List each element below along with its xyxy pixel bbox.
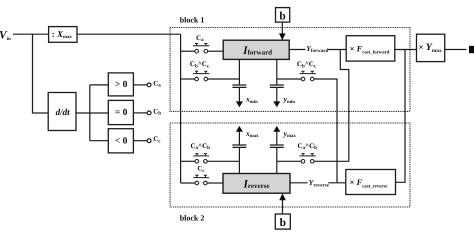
block lt0: [108, 129, 133, 153]
wire switch CaCb left to xmax node: [207, 160, 239, 162]
block xYmax: [417, 34, 445, 61]
wire Ymax to output: [445, 49, 467, 51]
block xFcast_forward: [346, 36, 395, 61]
wire ymax node to switch CaCb right: [277, 160, 301, 162]
wire switch Ca to Iforward: [208, 50, 224, 52]
wire bus to switch CbCc left: [181, 78, 195, 80]
arrow xmax: [236, 126, 259, 145]
wire bus to switch Ca: [181, 50, 195, 52]
source b top: [276, 8, 290, 23]
svg-text:> 0: > 0: [115, 80, 128, 90]
wire junction Vin bus to d/dt: [33, 34, 49, 113]
wire ymin node to switch CbCc right: [277, 78, 301, 80]
node Ca terminal: [147, 79, 161, 88]
svg-text:b: b: [279, 11, 285, 23]
wire Vin to :Xmax: [13, 33, 49, 35]
block1 dashed frame: [170, 28, 410, 112]
block gt0: [108, 73, 133, 96]
wire switch CbCc left to xmin node: [208, 78, 240, 80]
svg-text:< 0: < 0: [115, 136, 128, 146]
block eq0: [108, 100, 133, 124]
wire switch Cc to Ireverse: [207, 182, 223, 184]
switch CbCc right: [297, 60, 317, 81]
block2 label: [180, 214, 205, 223]
wire d/dt output to eq0: [76, 112, 108, 114]
node output port: [469, 46, 474, 53]
block Ireverse: [223, 174, 290, 194]
wire Iforward to xmin capacitor: [238, 59, 240, 85]
block2 dashed frame: [170, 123, 410, 207]
switch CaCb left: [190, 142, 210, 163]
block :Xmax: [49, 27, 77, 43]
wire Yreverse label line: [290, 182, 308, 184]
block Iforward: [223, 40, 289, 59]
source b bottom: [275, 214, 290, 229]
svg-text:= 0: = 0: [115, 108, 128, 118]
svg-text:Cb^Cc: Cb^Cc: [297, 60, 317, 69]
wire switch CbCc right down to Yreverse: [314, 79, 337, 183]
switch Ca: [193, 34, 209, 53]
capacitor ymax: [270, 145, 284, 147]
wire ymax capacitor to Ireverse: [276, 147, 278, 173]
switch Cc block2: [193, 165, 209, 185]
capacitor xmax: [232, 145, 246, 147]
node Cc terminal: [147, 135, 161, 144]
wire gt0 to Ca terminal: [133, 84, 147, 86]
arrow ymin: [273, 87, 295, 107]
wire bus to switch CaCb left: [181, 160, 196, 162]
wire lt0 to Cc terminal: [133, 140, 147, 142]
svg-text:d/dt: d/dt: [56, 107, 71, 117]
wire b bottom arrow into Ireverse: [279, 193, 286, 214]
wire merge vertical from Fcast_reverse: [396, 50, 406, 183]
wire Iforward to ymin capacitor: [276, 59, 278, 85]
capacitor ymin: [270, 85, 284, 87]
block d/dt: [48, 93, 76, 131]
node Vin label: [0, 30, 11, 42]
wire Xmax to block1 bus: [77, 33, 181, 35]
wire Yforward tap down to block2 switch: [314, 50, 349, 162]
wire Yforward label line: [289, 49, 305, 51]
capacitor xmin: [232, 85, 246, 87]
wire b top arrow into Iforward: [279, 22, 286, 40]
switch CbCc left: [190, 60, 210, 81]
wire Fcast_forward to Ymax: [395, 49, 417, 51]
wire xmax capacitor to Ireverse: [238, 147, 240, 173]
wire to gt0: [90, 84, 109, 86]
wire main bus vertical: [180, 34, 182, 183]
wire to lt0: [90, 140, 109, 142]
svg-text:block 2: block 2: [180, 214, 205, 223]
svg-text:Cb^Cc: Cb^Cc: [190, 60, 210, 69]
arrow ymax: [273, 126, 296, 145]
arrow xmin: [236, 87, 258, 107]
svg-text:block 1: block 1: [180, 16, 205, 25]
wire comparator bus vertical: [89, 85, 91, 141]
wire bus corner to switch Cc: [181, 182, 196, 184]
block1 label: [180, 16, 205, 25]
wire eq0 to Cb terminal: [133, 112, 147, 114]
node Cb terminal: [147, 107, 161, 116]
block xFcast_reverse: [346, 170, 396, 195]
switch CaCb right: [297, 142, 317, 163]
svg-text:b: b: [280, 217, 286, 229]
